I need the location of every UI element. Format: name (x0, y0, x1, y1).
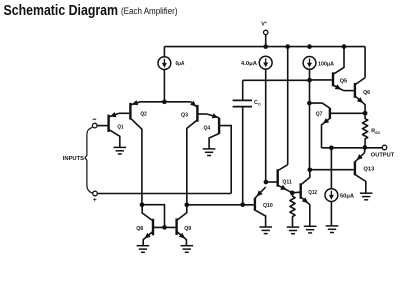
wire: rail corner down to 6uA source (163, 47, 165, 57)
node dot: Q6 emitter / Rsc top / Q7 base (363, 111, 368, 116)
transistor Q12 (NPN) (300, 183, 302, 199)
wire: plus input to Q4 base corner (98, 193, 232, 195)
current source I3 100uA (303, 57, 316, 70)
node dot: rail at 100uA (307, 44, 312, 49)
svg-text:Q12: Q12 (308, 190, 317, 196)
wire: first stage output to Q10 base (187, 204, 254, 206)
terminal OUTPUT (382, 145, 387, 150)
node dot: Q8/Q9 common base (162, 225, 167, 230)
transistor Q2 (PNP input) (129, 103, 131, 120)
svg-text:Q8: Q8 (136, 226, 143, 232)
node dot: Q2 collector / Q8 collector (140, 202, 145, 207)
wire: Q5 base (310, 79, 332, 81)
svg-text:OUTPUT: OUTPUT (371, 153, 395, 159)
node dot: C_C bottom tap (240, 202, 245, 207)
node dot: Q5 base / 100uA (307, 78, 312, 83)
svg-text:Q13: Q13 (363, 166, 374, 172)
wire: 100uA down through Q5-base and Q7-collector nodes (309, 69, 311, 170)
wire: 6uA source to input pair emitters (163, 69, 165, 102)
svg-text:Q10: Q10 (263, 203, 273, 209)
svg-text:INPUTS: INPUTS (63, 156, 85, 162)
wire: Q7 emitter to output node (322, 147, 383, 149)
svg-text:Q1: Q1 (117, 124, 123, 130)
ground under Q8 (137, 246, 150, 253)
node dot: Q7 collector tap (307, 101, 312, 106)
wire: 50uA source from output node (330, 148, 332, 189)
wire: Q1 emitter to Q2 base (119, 112, 129, 114)
current source I1 6uA (158, 57, 171, 70)
node dot: Q3 collector / Q9 collector / first stage out (184, 202, 189, 207)
ground under Q13 (360, 193, 373, 200)
ground under Q9 (181, 246, 194, 253)
svg-text:Q2: Q2 (140, 112, 147, 118)
ground under Q1 (114, 147, 127, 154)
node dot: Q10 emitter / Q11 base / 4uA (264, 180, 269, 185)
svg-text:Q9: Q9 (184, 226, 191, 232)
node dot: rail at Q11 collector (285, 44, 290, 49)
ground under R1 (287, 227, 300, 234)
wire: Q5 emitter to Q6 base (344, 90, 354, 92)
svg-text:4.0μA: 4.0μA (241, 61, 257, 67)
wire: Q8-Q9 base wire (153, 226, 176, 228)
transistor Q10 (PNP second stage) (254, 198, 256, 211)
wire: 4uA source down to Q10/Q11 node (265, 69, 267, 182)
transistor Q6 (NPN) (354, 83, 356, 98)
node dot: Q12 collector / Q13 base / 100uA (307, 167, 312, 172)
svg-text:Q7: Q7 (316, 111, 323, 117)
ground under 50uA (326, 226, 339, 233)
label: plus sign (93, 198, 96, 201)
ground under Q10 (259, 227, 272, 234)
node dot: Q11 emitter / R1 / Q12 base (290, 190, 295, 195)
svg-text:Schematic Diagram: Schematic Diagram (4, 3, 119, 19)
wire: rail right end down to Q6 collector (364, 47, 366, 78)
transistor Q11 (NPN) (277, 169, 279, 186)
transistor Q3 (PNP input) (196, 105, 198, 122)
wire: minus input to Q1 base (97, 125, 107, 127)
svg-text:100μA: 100μA (318, 61, 334, 67)
wire: Q11 base (266, 181, 277, 183)
node: tail junction dot (162, 99, 167, 104)
svg-text:V+: V+ (261, 20, 268, 28)
svg-text:Q11: Q11 (282, 179, 291, 185)
ground under Q4 (203, 149, 216, 156)
capacitor C_C (242, 80, 244, 100)
wire: V+ top rail (164, 46, 365, 48)
resistor R_SC (363, 113, 368, 147)
wire: input bracket (85, 127, 92, 193)
terminal: non-inverting input (93, 191, 98, 196)
node dot: rail at Q5 collector (342, 44, 347, 49)
wire: Q8 diode link to common base (142, 205, 165, 228)
label: minus sign (93, 118, 97, 120)
svg-text:50μA: 50μA (340, 194, 354, 200)
transistor Q4 (PNP input) (218, 118, 220, 134)
wire: 50uA to ground (330, 201, 332, 226)
svg-text:(Each Amplifier): (Each Amplifier) (121, 6, 178, 17)
terminal: inverting input (92, 123, 97, 128)
transistor Q13 (PNP output sink) (354, 161, 356, 175)
current source I4 50uA (325, 189, 338, 202)
svg-text:RSC: RSC (371, 129, 380, 135)
node dot: output node (363, 145, 368, 150)
wire: Q7 base (330, 112, 365, 114)
svg-text:Q5: Q5 (340, 79, 348, 85)
svg-text:6μA: 6μA (176, 61, 185, 67)
transistor Q1 (PNP input) (107, 115, 109, 132)
svg-text:CC: CC (254, 100, 261, 106)
transistor Q7 (NPN) (329, 108, 331, 119)
wire: rail down to Q11 collector (287, 47, 289, 165)
node dot: rail at 4uA (263, 44, 268, 49)
wire: emitter rail of input pair (140, 101, 191, 103)
wire: Q13 base (310, 169, 354, 171)
svg-text:Q3: Q3 (181, 112, 188, 118)
terminal V+ (264, 30, 268, 34)
current source I2 4uA (259, 56, 272, 69)
transistor Q8 (NPN mirror) (152, 219, 154, 236)
transistor Q5 (NPN) (332, 72, 334, 86)
svg-text:Q4: Q4 (204, 125, 211, 131)
svg-text:Q6: Q6 (363, 90, 370, 96)
transistor Q9 (NPN mirror) (175, 218, 177, 235)
wire: Q12 base (292, 191, 299, 194)
ground under Q12 (304, 226, 317, 233)
wire: V+ terminal to rail (265, 35, 267, 47)
wire: C_C top across to 100uA node (243, 79, 310, 81)
node dot: 50uA tap on output wire (329, 145, 334, 150)
resistor R1 (290, 193, 295, 227)
